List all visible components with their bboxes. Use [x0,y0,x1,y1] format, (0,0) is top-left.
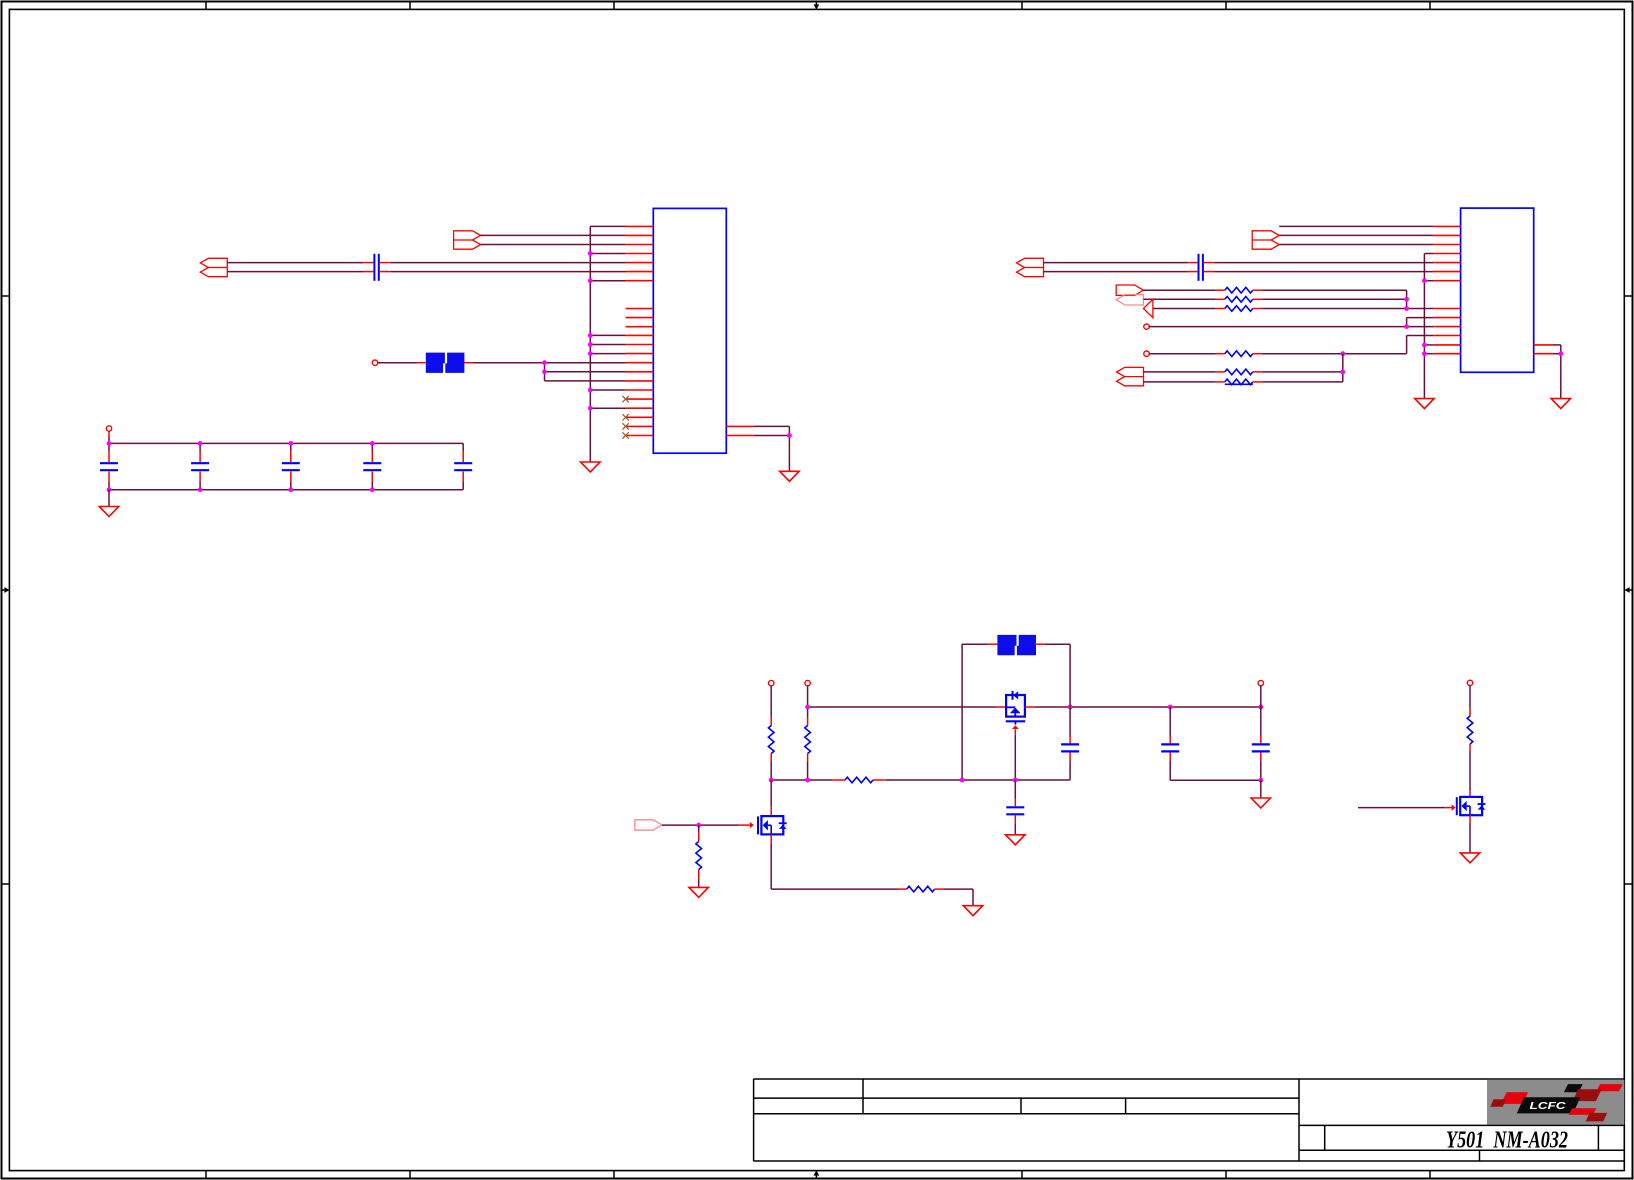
wire [1253,381,1262,383]
wire [380,262,391,264]
wire [1216,381,1225,383]
wire [371,482,373,490]
no-connect X [622,414,628,420]
wire [1149,353,1215,355]
resistor R3 [1225,306,1253,312]
junction [542,369,547,374]
junction [805,778,810,783]
connector CN2 [454,231,481,249]
connector CN7 [1116,295,1143,305]
wire [1044,262,1188,264]
wire [1407,335,1434,337]
wire [770,834,772,844]
wire [1169,760,1171,780]
wire [1424,353,1433,355]
wire [873,779,886,781]
wire [1469,823,1471,853]
wire [1279,234,1433,236]
wire [770,780,772,807]
wire [1069,753,1071,761]
wire [108,431,110,437]
wire bus bottom [109,489,463,491]
wire [1469,686,1471,709]
wire bus top [109,442,463,444]
resistor R12 [1467,716,1473,744]
wire [1262,289,1407,291]
wire [590,280,625,282]
wire [290,451,292,462]
wire [462,482,464,490]
wire [1560,354,1562,399]
connector CN4 [1017,258,1044,276]
wire [290,443,292,451]
capacitor C6 [454,463,472,470]
junction [370,487,375,492]
wire [1216,308,1225,310]
wire [807,761,809,780]
wire [417,362,426,364]
wire [698,833,700,842]
junction [198,487,203,492]
wire [390,271,625,273]
IC U2 body [1461,208,1534,372]
connector CN5 [1252,231,1279,249]
wire [771,888,898,890]
wire [590,334,625,336]
wire [462,471,464,482]
resistor R8 [805,726,811,754]
U2 right pin stubs [1534,345,1553,354]
junction [805,705,810,710]
wire [832,779,845,781]
wire [1215,271,1434,273]
wire [1169,753,1171,761]
wire [199,471,201,482]
no-connect bubble [1467,680,1472,685]
wire [378,362,418,364]
wire [371,451,373,462]
wire [390,262,625,264]
wire [590,353,625,355]
ground [1551,399,1570,409]
wire [1035,643,1045,645]
wire [1014,735,1016,780]
fuse F2 [997,635,1036,655]
wire [545,371,626,373]
wire GND bus at U2 [1423,254,1425,399]
junction [198,441,203,446]
wire [1469,815,1471,823]
wire [1069,760,1071,780]
junction [1068,705,1073,710]
title block grid [754,1079,1625,1161]
wire [807,754,809,762]
junction [1013,778,1018,783]
wire [199,443,201,451]
connector CN8 [1143,299,1153,317]
wire [544,363,546,381]
wire [1034,706,1261,708]
junction [1404,324,1409,329]
wire [1144,381,1216,383]
capacitor C5 [363,463,381,470]
wire [108,451,110,462]
junction [588,351,593,356]
wire [997,706,1006,708]
wire [590,407,625,409]
wire [1216,289,1225,291]
wire [1014,815,1016,823]
wire [1262,381,1343,383]
wire [108,490,110,507]
junction [1422,351,1427,356]
resistor R5 [1225,369,1253,375]
right center arrow marker [1624,587,1632,593]
junction [588,278,593,283]
wire [108,437,110,443]
junction [769,778,774,783]
resistor R6 [1225,379,1253,385]
wire [807,686,809,718]
no-connect bubble [1144,324,1149,329]
resistor R10 [696,842,702,870]
ground [581,462,600,472]
wire [108,482,110,490]
wire [1014,780,1016,799]
wire [1069,736,1071,744]
junction [1404,306,1409,311]
wire [1406,336,1408,354]
wire [788,426,790,471]
wire [1143,298,1215,300]
wire [1424,253,1433,255]
U2 left pin stubs [1433,226,1461,353]
transistor Q3 [1457,797,1486,815]
capacitor C11 [1252,744,1270,751]
wire [464,362,473,364]
junction [107,441,112,446]
junction [787,433,792,438]
wire [1253,289,1262,291]
junction [1258,778,1263,783]
wire [770,807,772,816]
wire [1188,271,1198,273]
IC U1 body [653,208,726,453]
junction [588,333,593,338]
wire [1407,317,1434,319]
wire [1342,354,1344,382]
left center arrow marker [2,587,10,593]
junction [588,406,593,411]
wire [699,824,740,826]
transistor Q2 [758,816,787,834]
wire [886,779,1070,781]
wire [590,344,625,346]
wire [590,225,625,227]
bottom center arrow marker [814,1170,820,1178]
wire [1560,345,1562,354]
wire [770,754,772,762]
capacitor C1 [374,254,378,281]
wire [1149,326,1433,328]
wire GND bus at U1 [589,226,591,462]
wire [1260,686,1262,707]
wire [1262,353,1407,355]
capacitor C10 [1161,744,1179,751]
wire [698,878,700,887]
wire [380,271,391,273]
junction [1422,278,1427,283]
wire [1153,308,1216,310]
transistor Q1 [1006,691,1025,729]
wire [1406,318,1408,327]
resistor R2 [1225,297,1253,303]
wire [1216,298,1225,300]
wire [473,362,626,364]
wire [1204,271,1215,273]
wire [698,870,700,879]
junction [288,441,293,446]
wire [770,686,772,717]
wire [1406,290,1408,308]
wire [1260,736,1262,744]
capacitor C3 [191,463,209,470]
wire [1143,289,1215,291]
wire [363,262,373,264]
wire [1262,371,1343,373]
resistor R7 [768,726,774,754]
wire [1260,707,1262,736]
wire [1170,779,1261,781]
wire [1260,753,1262,761]
junction [1558,351,1563,356]
wire [1279,244,1433,246]
wire [770,761,772,780]
wire [363,271,373,273]
wire [988,643,998,645]
junction [1422,343,1427,348]
U1 right pin stubs [726,426,754,435]
wire [1469,744,1471,751]
no-connect X [622,423,628,429]
wire [771,779,832,781]
wire [808,706,997,708]
capacitor C9 [1006,807,1024,814]
wire [462,443,464,451]
node VCC cap bank [106,426,111,431]
resistor R11 [907,886,935,892]
wire [1469,751,1471,791]
wire [1014,823,1016,835]
wire [1253,308,1262,310]
fuse F1 [426,353,465,373]
no-connect bubble [372,360,377,365]
wire [770,717,772,726]
wire [590,389,625,391]
wire [1424,280,1433,282]
wire [1253,353,1262,355]
junction [696,823,701,828]
U1 left pin stubs [626,226,654,435]
wire [290,471,292,482]
ground [99,507,118,517]
svg-text:Y501 NM-A032: Y501 NM-A032 [1446,1128,1568,1154]
wire [662,824,699,826]
wire [1469,709,1471,717]
no-connect X [622,396,628,402]
junction [960,778,965,783]
wire [807,718,809,726]
wire [1445,807,1451,809]
wire [1025,706,1034,708]
resistor R1 [1225,287,1253,293]
capacitor C2 [100,463,118,470]
ground [963,906,982,916]
wire [1014,729,1016,735]
wire [1215,262,1434,264]
wire [1469,791,1471,797]
resistor R4 [1225,351,1253,357]
wire [462,451,464,462]
wire [754,435,790,437]
capacitor C4 [282,463,300,470]
svg-text:LCFC: LCFC [1530,1101,1567,1112]
wire [1424,344,1433,346]
wire [1279,225,1433,227]
ground [689,887,708,897]
junction [588,342,593,347]
wire [972,889,974,906]
wire [1260,760,1262,780]
wire [898,888,907,890]
junction [107,487,112,492]
wire [1553,344,1561,346]
wire [108,471,110,482]
resistor R9 [845,777,873,783]
connector CN9 [1117,367,1144,385]
wire [1253,298,1262,300]
junction [370,441,375,446]
junction [1168,705,1173,710]
wire [740,824,750,826]
wire [1262,308,1433,310]
no-connect bubble [1144,351,1149,356]
capacitor C7 [1199,254,1203,281]
capacitor C8 [1061,744,1079,751]
wire [935,888,944,890]
wire [698,825,700,833]
wire [1216,353,1225,355]
wire [1358,807,1445,809]
wire [1169,707,1171,736]
wire [1216,371,1225,373]
wire [1260,780,1262,798]
junction [542,360,547,365]
wire [1014,799,1016,807]
wire [590,253,625,255]
junction [1340,351,1345,356]
no-connect bubble [769,680,774,685]
wire [108,443,110,451]
wire [481,244,626,246]
wire [1069,707,1071,736]
wire [545,380,626,382]
wire [754,425,790,427]
wire [1188,262,1198,264]
wire [1045,643,1070,645]
wire [1262,298,1407,300]
junction [1340,370,1345,375]
no-connect bubble [805,680,810,685]
wire [371,443,373,451]
gate arrow Q2 [750,822,754,828]
ground [1251,798,1270,808]
junction [588,388,593,393]
connector CN10 [635,820,662,830]
wire [943,888,973,890]
wire [961,644,963,780]
wire [199,451,201,462]
ground [1460,853,1479,863]
junction [1404,297,1409,302]
wire [290,482,292,490]
junction [288,487,293,492]
wire [1069,644,1071,707]
wire [481,234,626,236]
wire [199,482,201,490]
top center arrow marker [814,2,820,10]
wire [1253,371,1262,373]
junction [1258,705,1263,710]
wire [1144,371,1216,373]
wire [770,844,772,889]
wire [227,271,363,273]
LCFC logo [1487,1080,1624,1125]
wire [1044,271,1188,273]
wire [1553,353,1561,355]
connector CN6 [1116,285,1143,295]
no-connect bubble [1258,680,1263,685]
wire [1169,736,1171,744]
ground [1415,399,1434,409]
no-connect X [622,432,628,438]
wire [371,471,373,482]
title text Y501 NM-A032 [1446,1128,1568,1154]
gate arrow Q3 [1452,804,1456,810]
ground [780,471,799,481]
ground [1006,835,1025,845]
wire [1204,262,1215,264]
junction [588,251,593,256]
wire [227,262,363,264]
wire [962,643,987,645]
connector CN1 [200,258,227,276]
